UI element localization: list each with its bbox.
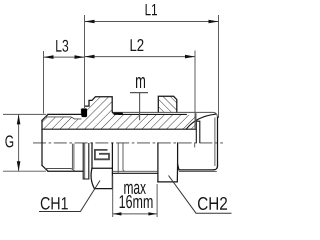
stud thread crest top [48,113,83,115]
stud bottom chamfer [42,165,48,171]
label G [5,135,13,147]
label max [124,184,146,194]
bulkhead thread root line [119,113,186,115]
bulkhead thread bottom root [113,170,158,172]
washer bottom-view edge 1 [117,143,119,173]
locknut section hatch [158,96,177,112]
max16 left extension line [112,176,114,218]
G down arrowhead [17,161,21,171]
locknut bottom-view right edge [177,143,179,164]
body step edge [195,113,197,122]
bulkhead thread bottom crest [112,172,157,174]
o-ring groove bottom-view inner edge [84,143,86,179]
washer bottom-view edge 2 [123,143,125,171]
L3 left arrowhead [44,55,54,59]
L2 left arrowhead [85,55,95,59]
G top extension line [3,113,46,115]
m leader line [139,93,141,121]
body section hatch [42,97,196,130]
cone seat edge right [196,121,200,142]
L2 dimension line [85,56,196,58]
bulkhead thread crest top [114,112,218,117]
L1 right arrowhead [209,20,219,24]
label L2 [131,39,144,51]
washer sliver at hex base [114,112,123,114]
label L1 [146,4,157,15]
o-ring groove wall [80,109,82,115]
max16 right extension line [156,184,158,217]
L2 right extension line [194,51,196,130]
stud left face [41,120,43,165]
right end face [217,117,219,165]
thread runout cone diagonal [186,114,215,129]
locknut bottom-view left edge [157,143,159,182]
centerline [33,142,223,144]
stud top chamfer [42,114,48,120]
label CH2 [198,197,227,210]
hex CH1 bottom-view left edge [91,143,94,189]
max16 left arrowhead [113,212,122,215]
stud thread root top [45,117,81,119]
hex CH1 bottom-view bottom [94,188,112,190]
stud thread crest bottom [48,170,83,172]
captive seal spiral mark [95,150,109,159]
right end bottom-view bottom edge [179,169,214,171]
hex CH1 bottom-view shoulder [92,167,112,169]
hex CH1 washer lip profile [85,97,114,114]
label L3 [56,40,68,52]
L1 left arrowhead [85,20,95,24]
label m [136,77,145,88]
max16 right arrowhead [148,212,157,215]
right end bottom corner [214,166,218,170]
o-ring seal (section, solid) [81,108,87,117]
stud thread root bottom [45,169,75,171]
CH2 leader line [169,176,232,214]
L3 right arrowhead [75,55,85,59]
collar bottom second line [179,171,217,173]
locknut bottom-view bottom [158,164,178,182]
G bottom extension line [3,170,46,172]
right face inner chamfer line [214,118,216,167]
stud thread runout edges bottom view [72,144,74,170]
L2 right arrowhead [185,55,195,59]
L1 right extension line [218,15,220,118]
CH1 leader line [39,181,100,212]
L3 left extension line [43,51,45,114]
L3 dimension line [44,56,85,58]
m tick bar [130,92,148,94]
hex CH1 bottom-view right edge [111,143,113,189]
G arrow line [18,114,20,171]
label CH1 [41,197,68,210]
bore line [42,128,196,130]
label 16mm [120,195,153,208]
cone seat edge left [195,121,197,143]
L1 dimension line [85,21,219,23]
G up arrowhead [17,114,21,124]
L1 left extension line [84,15,86,108]
thread end edge below centerline [194,143,196,148]
o-ring bottom-view block [83,143,89,179]
max16 dimension line [113,213,157,215]
locknut bottom-view washer step [178,164,179,170]
locknut section outline [158,96,177,112]
